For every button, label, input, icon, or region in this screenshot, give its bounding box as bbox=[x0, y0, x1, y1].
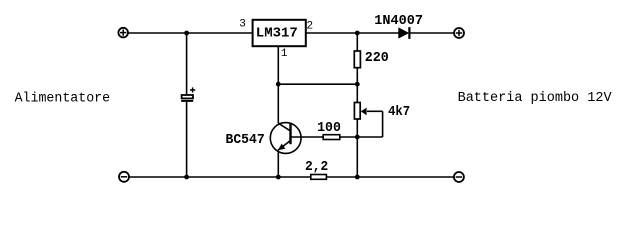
svg-text:3: 3 bbox=[239, 19, 246, 31]
svg-text:4k7: 4k7 bbox=[388, 104, 410, 120]
svg-text:LM317: LM317 bbox=[256, 25, 298, 41]
svg-text:1N4007: 1N4007 bbox=[374, 13, 423, 29]
svg-text:Alimentatore: Alimentatore bbox=[15, 92, 111, 107]
svg-text:2: 2 bbox=[307, 21, 314, 33]
svg-text:BC547: BC547 bbox=[226, 132, 265, 148]
svg-text:Batteria piombo 12V: Batteria piombo 12V bbox=[458, 91, 612, 106]
svg-text:100: 100 bbox=[317, 120, 341, 136]
svg-text:2,2: 2,2 bbox=[305, 159, 328, 175]
svg-text:1: 1 bbox=[281, 48, 288, 60]
svg-text:220: 220 bbox=[365, 50, 389, 66]
